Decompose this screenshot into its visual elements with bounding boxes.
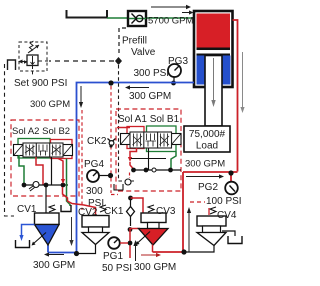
svg-text:Set 900 PSI: Set 900 PSI: [14, 78, 67, 89]
svg-text:300 GPM: 300 GPM: [185, 159, 225, 170]
svg-text:300 PSI: 300 PSI: [134, 68, 170, 79]
pilot wire prefill valve (dashed): [119, 28, 126, 56]
flow arrow right (PG2 area): [186, 176, 219, 178]
svg-text:Load: Load: [196, 141, 218, 152]
pilot wire red dashed (center-left): [81, 110, 83, 210]
node bottom red junction: [181, 249, 186, 254]
svg-text:Sol A1 Sol B1: Sol A1 Sol B1: [118, 114, 180, 125]
wire rod-end red line from cylinder top: [183, 20, 238, 252]
flow arrow right (bottom 300 GPM): [141, 254, 156, 256]
check valve CV2 (white): [79, 216, 109, 254]
flow arrow inside rod: [213, 58, 215, 101]
spring CV1: [49, 205, 55, 212]
wire blue pump pressure line: [48, 83, 194, 254]
node PG1 junction: [128, 241, 133, 246]
cylinder cap-side fluid (red): [197, 14, 231, 48]
svg-text:Prefill: Prefill: [122, 36, 147, 47]
node pilot junction diamond: [115, 57, 122, 65]
valve V2 highlight box (green, A-path): [18, 139, 50, 159]
wire CV1 inlet to tank T5 (blue): [22, 225, 35, 237]
spring CV3: [148, 205, 154, 212]
svg-text:PG2: PG2: [198, 182, 218, 193]
wire V2 B-port (red): [36, 157, 43, 185]
valve V2 enclosure (red dashed): [11, 120, 79, 196]
pilot wire red dashed center riser: [111, 86, 118, 195]
spring CV2: [100, 205, 106, 212]
gauge PG3: [168, 64, 181, 77]
wire PG1 riser (red): [129, 228, 131, 258]
node red line junction: [228, 170, 233, 175]
wire V1 P-port feed (red): [117, 127, 130, 129]
valve V2 body (4/3 directional): [23, 143, 63, 157]
svg-text:CV1: CV1: [17, 204, 37, 215]
wire CK1 to CV3 (red): [131, 198, 144, 213]
piston: [197, 48, 231, 51]
flow arrow up (PG1 area): [135, 245, 137, 261]
wire bottom red return: [153, 251, 184, 253]
wire V1 manifold: [133, 169, 181, 171]
svg-text:75,000#: 75,000#: [189, 129, 226, 140]
svg-text:300 GPM: 300 GPM: [33, 260, 75, 271]
relief valve body: [27, 55, 38, 66]
relief valve spring: [29, 41, 34, 52]
svg-text:300 GPM: 300 GPM: [30, 99, 70, 110]
wire V1 T-line: [131, 158, 166, 160]
node CK1 junction: [128, 196, 133, 201]
wire machine boundary (dashed, left edge): [5, 64, 15, 216]
cylinder rod-side fluid (blue): [197, 56, 206, 85]
gauge PG2: [225, 182, 238, 195]
svg-text:CK2: CK2: [87, 136, 107, 147]
prefill valve PV body: [128, 11, 146, 26]
check valve CV3 (red): [136, 213, 169, 252]
flow arrow down (beside red line): [242, 52, 244, 108]
wire V2 T-port stub: [51, 157, 53, 185]
check valve CK2: [108, 139, 116, 143]
node CV3 feed junction: [128, 227, 133, 232]
svg-text:PG3: PG3: [168, 56, 188, 67]
check valve CK1 poppet diamond: [127, 207, 135, 217]
relief valve RV enclosure (dashed): [19, 42, 47, 71]
svg-text:300 GPM: 300 GPM: [129, 91, 171, 102]
flow arrow down (blue riser): [80, 86, 82, 103]
relief valve drain stub (dashed): [32, 66, 34, 75]
gauge PG4: [87, 170, 99, 182]
tank T1 (top reservoir bracket): [67, 10, 108, 18]
wire V2 to tank (green): [67, 159, 71, 207]
flow arrow up (to valves): [188, 212, 190, 252]
svg-text:PG1: PG1: [103, 251, 123, 262]
svg-text:50 PSI: 50 PSI: [102, 263, 132, 274]
valve V1 solenoid a: [121, 134, 131, 145]
valve V2 solenoid b: [63, 145, 73, 156]
tank T3 (V2 drain): [61, 205, 71, 212]
flow arrow left (center 300 GPM): [130, 87, 149, 89]
wire V2 manifold: [23, 184, 68, 186]
valve V2 highlight box (red, B-path): [51, 140, 73, 159]
node manifold dots V2: [22, 183, 27, 188]
cylinder C1 barrel: [194, 11, 233, 126]
wire V1 T-port stub: [148, 148, 150, 170]
spring CV4: [210, 207, 216, 214]
svg-text:Sol A2 Sol B2: Sol A2 Sol B2: [12, 126, 70, 137]
wire CV4 to tank: [222, 231, 235, 236]
piston rod: [205, 56, 222, 127]
valve V1 enclosure (red dashed): [116, 109, 181, 191]
tank T2 (relief drain, inverted U): [8, 60, 16, 70]
valve V1 body (4/3 directional): [130, 132, 172, 148]
svg-text:CV4: CV4: [217, 210, 237, 221]
tank T5 (bottom left): [16, 240, 30, 248]
valve V2 solenoid a: [14, 145, 24, 156]
wire V1 A-port (red): [130, 148, 137, 157]
pilot wire to relief valve (dashed): [49, 60, 114, 62]
relief valve drain arrow to tank: [21, 61, 27, 63]
node blue bottom junction: [74, 251, 79, 256]
svg-text:5700 GPM: 5700 GPM: [148, 16, 193, 27]
check valve CV4 (white): [185, 216, 226, 252]
wire V2 A-port (green): [19, 155, 24, 183]
wire V1 top green: [171, 152, 176, 169]
wire green suction line tank to cylinder: [107, 17, 194, 19]
gauge PG1: [108, 237, 120, 249]
valve V1 solenoid b: [172, 134, 182, 145]
wire to CV1: [45, 185, 47, 213]
flow arrow 5700 GPM: [151, 5, 193, 15]
node manifold dots V1: [131, 168, 136, 173]
flow arrow down (tank return): [71, 217, 73, 241]
tank T4 (CV4 drain): [228, 236, 242, 244]
flow arrow left (bottom 300 GPM): [49, 254, 64, 256]
valve V1 highlight box (red, P-path): [127, 127, 144, 149]
svg-text:CV3: CV3: [156, 206, 176, 217]
check valve (V2 manifold): [33, 182, 39, 188]
wire V2 to CV2 (red): [58, 159, 63, 181]
pilot wire black dashed (prefill pilot to CK1): [119, 65, 135, 181]
svg-text:CV2: CV2: [78, 207, 98, 218]
svg-text:100 PSI: 100 PSI: [206, 196, 242, 207]
check valve CK1 pilot section: [125, 179, 131, 185]
pilot wire red dashes near 100 PSI: [190, 201, 205, 203]
check valve CV1 (blue): [32, 213, 60, 246]
valve V1 highlight box (green, return path): [147, 126, 177, 152]
svg-text:PG4: PG4: [84, 159, 104, 170]
svg-text:300: 300: [86, 186, 103, 197]
load box 75,000#: [184, 126, 230, 152]
node blue junction at pilot tap: [108, 80, 113, 85]
svg-text:Valve: Valve: [131, 47, 156, 58]
svg-text:300 GPM: 300 GPM: [134, 262, 176, 273]
